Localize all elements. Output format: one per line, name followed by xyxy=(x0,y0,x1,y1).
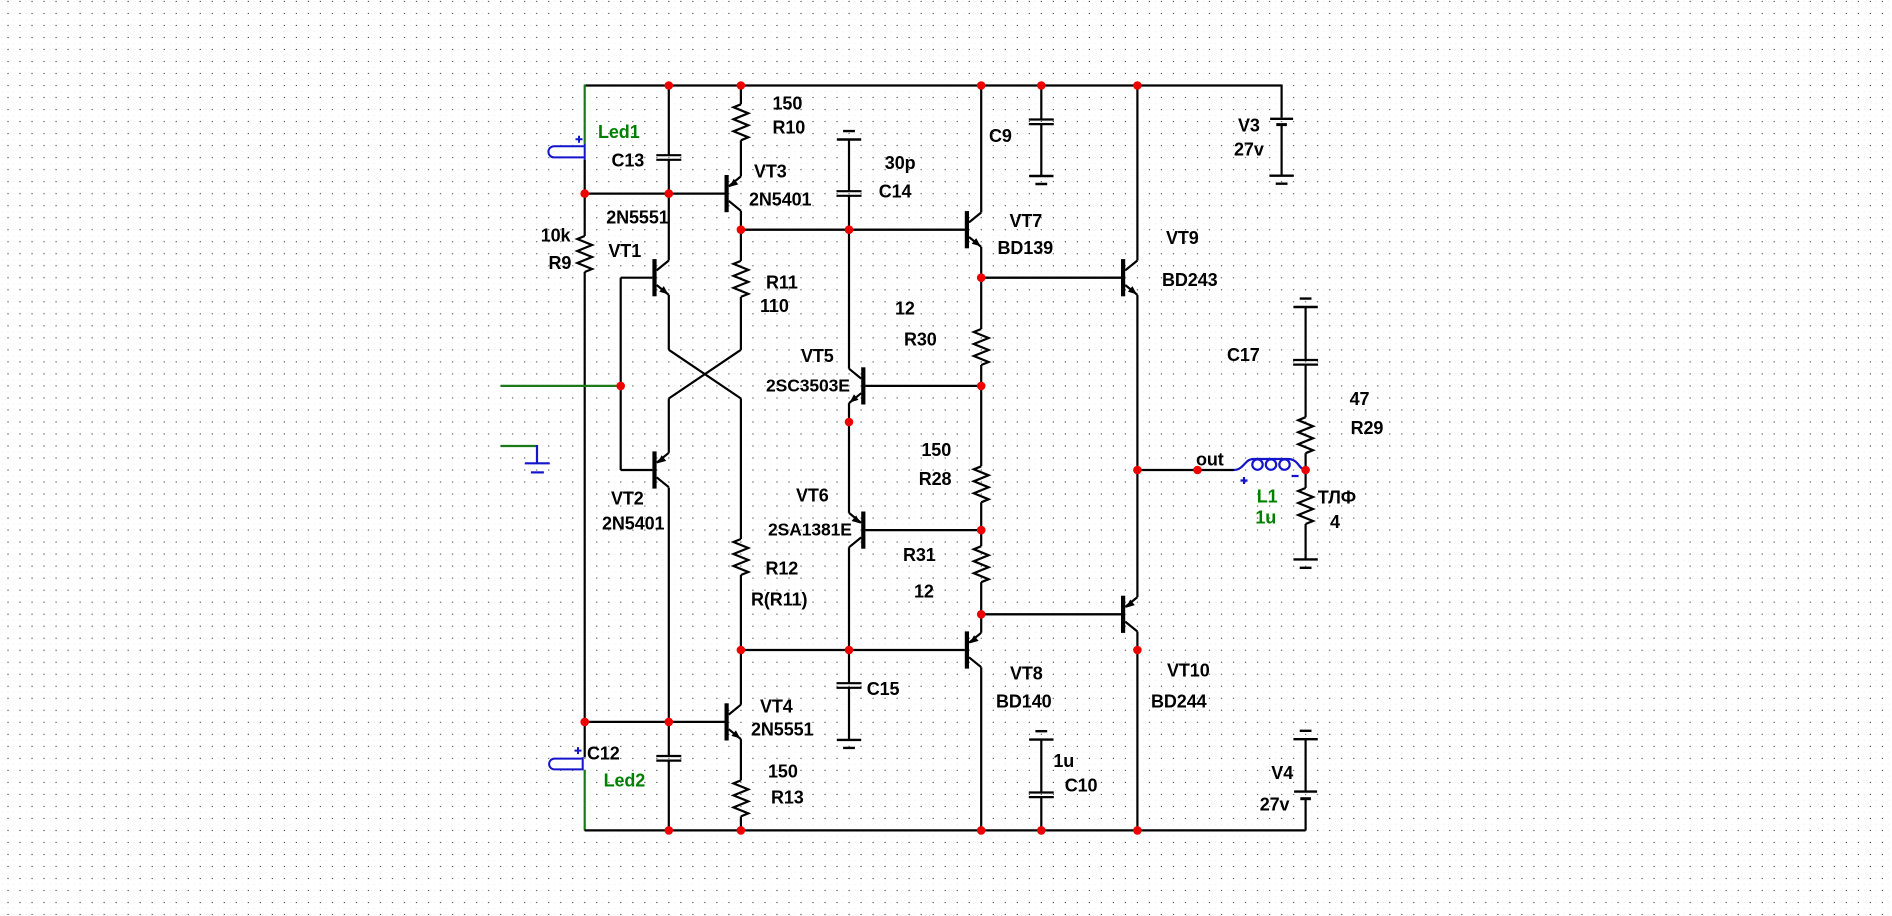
wire driver row VT4 to VT8 base xyxy=(741,649,965,651)
resistor R12 xyxy=(734,539,749,575)
wire VT5 to VT6 emitter xyxy=(848,422,850,513)
wire C10 upper lead xyxy=(1040,740,1042,793)
wire R28 lower lead xyxy=(980,502,982,530)
transistor VT9 BD243 xyxy=(981,259,1137,296)
svg-text:2N5401: 2N5401 xyxy=(602,513,665,533)
svg-text:12: 12 xyxy=(914,581,934,601)
wire input ground stub green xyxy=(501,445,537,447)
svg-text:47: 47 xyxy=(1350,389,1370,409)
wire C13 upper lead xyxy=(668,86,670,156)
svg-text:150: 150 xyxy=(921,440,951,460)
svg-text:27v: 27v xyxy=(1260,794,1290,814)
resistor R11 xyxy=(734,261,749,297)
wire VT1 base column xyxy=(620,278,622,470)
svg-text:1u: 1u xyxy=(1053,751,1074,771)
svg-text:1u: 1u xyxy=(1255,507,1276,527)
resistor R30 xyxy=(974,329,989,365)
svg-text:R29: R29 xyxy=(1351,418,1384,438)
terminator of C17 xyxy=(1293,299,1317,307)
junction node VT5-VT6 emitters xyxy=(845,418,854,427)
svg-text:2SA1381E: 2SA1381E xyxy=(768,519,852,539)
transistor VT7 BD139 xyxy=(741,211,981,248)
ground symbol at input xyxy=(525,445,550,472)
svg-text:C13: C13 xyxy=(612,150,645,170)
junction node R31 / VT10 base xyxy=(977,610,986,619)
wire out node to VT10 emitter xyxy=(1136,470,1138,597)
svg-text:C10: C10 xyxy=(1065,775,1098,795)
junction node LED1-R9 xyxy=(580,189,589,198)
capacitor C9 xyxy=(1029,120,1054,125)
svg-text:VT9: VT9 xyxy=(1166,228,1199,248)
svg-text:2SC3503E: 2SC3503E xyxy=(766,375,850,395)
wire input signal green xyxy=(501,385,621,387)
svg-text:C12: C12 xyxy=(587,743,620,763)
wire load to ground xyxy=(1304,524,1306,559)
svg-text:VT6: VT6 xyxy=(796,485,829,505)
svg-text:R13: R13 xyxy=(771,787,804,807)
wire VT6 collector drop xyxy=(848,547,850,650)
wire R31 upper lead xyxy=(980,530,982,546)
junction bottom rail / VT10 xyxy=(1133,826,1142,835)
resistor R28 xyxy=(974,466,989,502)
wire VT7 emitter row to VT9 base xyxy=(981,277,1121,279)
svg-text:R10: R10 xyxy=(773,117,806,137)
wire R29 lower lead xyxy=(1304,453,1306,470)
transistor VT1 2N5551 xyxy=(621,259,669,296)
svg-text:BD243: BD243 xyxy=(1162,270,1218,290)
junction node out / VT9-VT10 xyxy=(1133,466,1142,475)
wire VT5 emitter drop xyxy=(848,403,850,422)
wire node A to VT3 base row xyxy=(585,193,669,195)
transistor VT3 2N5401 xyxy=(669,175,741,212)
svg-text:L1: L1 xyxy=(1257,486,1278,506)
wire left rail to LED2 xyxy=(584,722,586,758)
LED Led1 xyxy=(548,136,584,160)
wire C17 to R29 xyxy=(1304,365,1306,418)
capacitor C14 xyxy=(837,191,862,196)
svg-text:R12: R12 xyxy=(766,558,799,578)
junction node C15 / VT6 collector xyxy=(845,646,854,655)
junction node R30-R28 / VT5 base xyxy=(977,382,986,391)
terminator of C14 xyxy=(837,131,861,139)
wire C10 lower lead xyxy=(1040,797,1042,830)
wire VT4 base row xyxy=(585,721,725,723)
polarity marks of L1 xyxy=(1241,476,1299,484)
junction node input / VT1 base column xyxy=(616,382,625,391)
wire R31 row to VT10 base xyxy=(981,613,1121,615)
svg-text:R11: R11 xyxy=(766,272,798,292)
battery V4 plates xyxy=(1294,790,1317,792)
junction bottom rail / C12 xyxy=(665,826,674,835)
svg-text:150: 150 xyxy=(773,93,803,113)
wire top supply rail xyxy=(585,84,1282,86)
junction bottom rail / R13 xyxy=(737,826,746,835)
svg-text:C17: C17 xyxy=(1227,345,1260,365)
terminator of V4 xyxy=(1293,731,1317,739)
wire load upper lead xyxy=(1304,470,1306,488)
junction bottom rail / VT8 collector xyxy=(977,826,986,835)
capacitor C13 xyxy=(656,155,681,160)
wire C14 upper lead xyxy=(848,140,850,192)
svg-text:VT5: VT5 xyxy=(801,346,834,366)
wire C17 upper lead xyxy=(1304,307,1306,360)
wire C12 upper lead xyxy=(668,722,670,756)
svg-text:10k: 10k xyxy=(541,225,572,245)
svg-text:Led2: Led2 xyxy=(604,770,646,790)
inductor L1 xyxy=(1234,459,1306,470)
wire bottom rail xyxy=(585,829,1306,831)
wire R10 to VT3 emitter xyxy=(740,140,742,176)
transistor VT10 BD244 xyxy=(981,596,1137,633)
wire V4 bottom lead xyxy=(1304,799,1306,831)
terminator of C9 xyxy=(1029,176,1053,184)
wire VT8 collector drop xyxy=(980,667,982,830)
svg-text:C14: C14 xyxy=(879,181,912,201)
wire VT4 collector riser xyxy=(740,650,742,705)
svg-text:2N5551: 2N5551 xyxy=(751,719,814,739)
wire left rail green segment xyxy=(584,85,586,144)
LED Led2 xyxy=(549,747,583,770)
junction node out label xyxy=(1193,466,1202,475)
wire C13 lower lead xyxy=(668,160,670,194)
battery V3 plates xyxy=(1270,118,1293,120)
wire R11 upper lead xyxy=(740,230,742,261)
junction node LED2 / VT4 base xyxy=(580,718,589,727)
junction node C13 / VT3 base xyxy=(665,189,674,198)
svg-text:out: out xyxy=(1196,449,1224,469)
capacitor C17 xyxy=(1293,360,1318,365)
wire C15 upper lead xyxy=(848,650,850,683)
terminator of C15 xyxy=(837,740,861,748)
svg-text:VT4: VT4 xyxy=(760,696,793,716)
wire VT2 collector drop xyxy=(668,488,670,722)
resistor R13 xyxy=(734,780,749,816)
junction node C12 / VT2 collector xyxy=(665,718,674,727)
wire VT10 node to bottom rail xyxy=(1136,650,1138,830)
junction top rail / C13 xyxy=(665,81,674,90)
wire C9 lower lead xyxy=(1040,124,1042,176)
wire C15 lower lead xyxy=(848,688,850,740)
svg-text:C15: C15 xyxy=(867,679,900,699)
wire R10 upper lead xyxy=(740,86,742,105)
resistor R29 xyxy=(1298,417,1313,453)
junction top rail / R10 xyxy=(737,81,746,90)
svg-text:4: 4 xyxy=(1330,512,1340,532)
wire VT7 collector riser xyxy=(980,86,982,213)
wire VT4 emitter to R13 xyxy=(740,739,742,780)
wire VT2 emitter riser xyxy=(668,399,670,453)
svg-text:ТЛФ: ТЛФ xyxy=(1318,487,1356,507)
capacitor C12 xyxy=(656,756,681,761)
wire out row xyxy=(1137,469,1234,471)
wire VT9 emitter to out node xyxy=(1136,295,1138,470)
wire V3 mid xyxy=(1280,125,1282,176)
capacitor C15 xyxy=(837,683,862,688)
wire VT8 emitter riser xyxy=(980,614,982,633)
ground of TLF load xyxy=(1293,559,1317,567)
wire left rail LED1 to node xyxy=(584,160,586,236)
svg-text:2N5551: 2N5551 xyxy=(606,207,669,227)
wire VT10 collector drop xyxy=(1136,632,1138,651)
svg-text:R31: R31 xyxy=(903,545,936,565)
svg-text:VT2: VT2 xyxy=(611,488,644,508)
transistor VT8 BD140 xyxy=(965,631,981,668)
junction bottom rail / C10 xyxy=(1037,826,1046,835)
svg-text:R(R11): R(R11) xyxy=(751,589,808,609)
wire left rail R9 to VT4 base row xyxy=(584,272,586,722)
svg-text:BD139: BD139 xyxy=(998,238,1054,258)
wire VT3 collector row to VT7 base xyxy=(741,229,965,231)
wire R13 lower lead xyxy=(740,816,742,830)
terminator of V3 xyxy=(1269,176,1293,184)
wire R31 lower lead xyxy=(980,582,982,614)
transistor VT4 2N5551 xyxy=(725,703,741,740)
junction node out / L1-R29-load xyxy=(1301,466,1310,475)
resistor R31 xyxy=(974,546,989,582)
svg-text:R30: R30 xyxy=(904,329,937,349)
transistor VT2 2N5401 xyxy=(621,451,669,488)
svg-text:R9: R9 xyxy=(549,253,572,273)
wire VT1 emitter drop xyxy=(668,295,670,350)
capacitor C10 xyxy=(1029,793,1054,798)
resistor TLF 4ohm load xyxy=(1298,488,1313,524)
wire VT9 collector riser xyxy=(1136,86,1138,261)
wire R11 lower lead xyxy=(740,297,742,350)
wire LED2 to bottom rail green xyxy=(584,770,586,831)
junction top rail / VT9 collector xyxy=(1133,81,1142,90)
svg-text:2N5401: 2N5401 xyxy=(749,189,812,209)
wire VT3 collector to node xyxy=(740,211,742,230)
svg-text:BD244: BD244 xyxy=(1151,691,1207,711)
svg-text:V4: V4 xyxy=(1271,763,1293,783)
wire diagonal R11 to VT2 emitter xyxy=(669,350,741,399)
svg-text:VT3: VT3 xyxy=(754,161,787,181)
terminator of C10 xyxy=(1029,731,1053,739)
wire C14 lower lead xyxy=(848,196,850,230)
junction node R28-R31 / VT6 base xyxy=(977,526,986,535)
svg-text:VT7: VT7 xyxy=(1010,211,1043,231)
transistor VT5 2SC3503E xyxy=(849,367,981,404)
svg-text:VT1: VT1 xyxy=(608,241,641,261)
svg-text:Led1: Led1 xyxy=(598,122,640,142)
wire V3 top lead xyxy=(1280,85,1282,118)
svg-text:150: 150 xyxy=(768,761,798,781)
junction node VT3 collector xyxy=(737,225,746,234)
wire VT1 collector riser xyxy=(668,194,670,261)
wire V4 mid xyxy=(1304,739,1306,790)
svg-text:VT10: VT10 xyxy=(1167,660,1210,680)
junction top rail / C9 xyxy=(1037,81,1046,90)
svg-text:C9: C9 xyxy=(989,126,1012,146)
junction node C14 xyxy=(845,225,854,234)
svg-text:27v: 27v xyxy=(1234,139,1264,159)
junction node VT10 collector xyxy=(1133,646,1142,655)
wire VT5 collector riser xyxy=(848,230,850,369)
wire R28 upper lead xyxy=(980,386,982,466)
svg-text:12: 12 xyxy=(895,298,915,318)
svg-text:BD140: BD140 xyxy=(996,691,1052,711)
wire diagonal VT1 emitter to R12 xyxy=(669,350,741,399)
wire R12 lower lead xyxy=(740,575,742,650)
svg-text:R28: R28 xyxy=(919,469,952,489)
resistor R9 xyxy=(577,236,592,272)
svg-text:V3: V3 xyxy=(1238,115,1260,135)
wire VT7 emitter to node xyxy=(980,247,982,278)
svg-text:30p: 30p xyxy=(885,153,916,173)
wire R12 column upper xyxy=(740,399,742,540)
wire C9 upper lead xyxy=(1040,86,1042,120)
wire R30 upper lead xyxy=(980,278,982,329)
transistor VT6 2SA1381E xyxy=(849,512,981,549)
wire R30 lower lead xyxy=(980,365,982,386)
junction node R12 / VT4 collector xyxy=(737,646,746,655)
resistor R10 xyxy=(734,104,749,140)
junction node VT7 emitter xyxy=(977,273,986,282)
svg-text:VT8: VT8 xyxy=(1010,663,1043,683)
junction top rail / VT7 collector xyxy=(977,81,986,90)
wire C12 lower lead xyxy=(668,761,670,831)
svg-text:110: 110 xyxy=(760,296,789,316)
